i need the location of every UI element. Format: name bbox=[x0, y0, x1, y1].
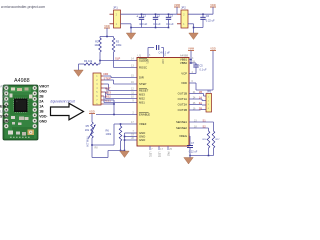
svg-text:STEP: STEP bbox=[0, 114, 9, 118]
svg-text:R2: R2 bbox=[95, 40, 99, 44]
svg-text:1B: 1B bbox=[39, 109, 44, 113]
svg-text:CP1: CP1 bbox=[146, 59, 148, 64]
svg-text:DIR: DIR bbox=[139, 76, 144, 80]
svg-text:SENSE1: SENSE1 bbox=[176, 120, 187, 124]
svg-text:2A: 2A bbox=[39, 99, 44, 103]
svg-text:0.22 uF: 0.22 uF bbox=[189, 150, 198, 153]
svg-text:VMOT: VMOT bbox=[39, 84, 50, 88]
svg-text:1A: 1A bbox=[39, 104, 44, 108]
svg-text:LSS1: LSS1 bbox=[149, 152, 151, 158]
svg-text:A4988: A4988 bbox=[14, 78, 30, 84]
svg-text:U1: U1 bbox=[138, 53, 142, 57]
svg-text:1B: 1B bbox=[199, 90, 202, 94]
svg-text:1A: 1A bbox=[199, 95, 202, 99]
svg-text:VDD: VDD bbox=[210, 47, 216, 51]
svg-text:SENSE2: SENSE2 bbox=[176, 126, 187, 130]
svg-text:VDD: VDD bbox=[104, 24, 110, 28]
svg-text:C4 0.1 uF: C4 0.1 uF bbox=[159, 50, 171, 54]
svg-text:VBB2: VBB2 bbox=[180, 61, 188, 65]
svg-text:0.1 uF: 0.1 uF bbox=[153, 22, 161, 26]
svg-text:OUT1A: OUT1A bbox=[178, 97, 187, 101]
svg-text:20k: 20k bbox=[85, 128, 90, 132]
svg-text:S1: S1 bbox=[203, 118, 207, 122]
svg-text:0.1 uF: 0.1 uF bbox=[166, 22, 174, 26]
svg-text:OUT2A: OUT2A bbox=[178, 103, 187, 107]
svg-text:w.microcontroller-project.com: w.microcontroller-project.com bbox=[1, 5, 45, 9]
svg-text:TRIM_10K: TRIM_10K bbox=[86, 136, 88, 147]
svg-text:2B: 2B bbox=[199, 106, 202, 110]
svg-text:0.1 uF: 0.1 uF bbox=[200, 68, 208, 71]
svg-text:VDD: VDD bbox=[181, 81, 187, 85]
svg-text:VDD: VDD bbox=[210, 3, 216, 7]
svg-text:Equivalent circuit: Equivalent circuit bbox=[51, 99, 75, 103]
svg-text:RESET: RESET bbox=[0, 104, 9, 108]
svg-text:C2: C2 bbox=[157, 14, 161, 18]
svg-text:SLP: SLP bbox=[115, 56, 120, 60]
svg-text:JP5: JP5 bbox=[207, 89, 212, 93]
svg-text:C3: C3 bbox=[170, 14, 174, 18]
svg-text:VDD·: VDD· bbox=[39, 114, 47, 118]
svg-text:R3: R3 bbox=[116, 40, 120, 44]
svg-text:0.22 uF: 0.22 uF bbox=[206, 19, 215, 23]
svg-text:MS1: MS1 bbox=[139, 101, 145, 105]
svg-text:VMM: VMM bbox=[174, 3, 180, 7]
svg-text:100k: 100k bbox=[116, 43, 122, 47]
svg-text:ROSC: ROSC bbox=[139, 66, 147, 70]
svg-text:VMM: VMM bbox=[188, 47, 194, 51]
svg-text:100 uF: 100 uF bbox=[139, 22, 147, 26]
svg-text:R4 10k: R4 10k bbox=[84, 59, 93, 63]
svg-text:+: + bbox=[136, 14, 138, 18]
svg-text:STEP: STEP bbox=[139, 82, 146, 86]
svg-text:GND: GND bbox=[39, 119, 47, 123]
svg-text:PAD: PAD bbox=[167, 152, 170, 157]
svg-text:LSS2: LSS2 bbox=[158, 152, 160, 158]
svg-text:MS2: MS2 bbox=[2, 94, 9, 98]
svg-text:ENABLE: ENABLE bbox=[0, 84, 9, 88]
svg-text:C1: C1 bbox=[143, 14, 147, 18]
svg-text:CP2: CP2 bbox=[161, 59, 163, 64]
svg-text:DIR: DIR bbox=[3, 119, 9, 123]
svg-text:10k: 10k bbox=[94, 43, 99, 47]
svg-text:VCP: VCP bbox=[181, 72, 187, 76]
svg-text:JP1: JP1 bbox=[113, 6, 118, 10]
svg-text:GND: GND bbox=[39, 89, 47, 93]
svg-text:R6: R6 bbox=[106, 128, 110, 132]
svg-text:2B: 2B bbox=[39, 94, 44, 98]
svg-text:ENABLE: ENABLE bbox=[139, 113, 150, 117]
svg-text:VREG: VREG bbox=[179, 134, 187, 138]
svg-text:R5: R5 bbox=[86, 124, 90, 128]
svg-text:S2: S2 bbox=[203, 124, 207, 128]
svg-text:JP2: JP2 bbox=[181, 6, 186, 10]
svg-text:100k: 100k bbox=[106, 132, 112, 136]
svg-text:SLEEP: SLEEP bbox=[0, 109, 9, 113]
svg-text:VDD: VDD bbox=[89, 110, 95, 114]
svg-text:OUT1B: OUT1B bbox=[178, 92, 187, 96]
svg-text:VREF: VREF bbox=[139, 122, 147, 126]
svg-text:MS3: MS3 bbox=[2, 99, 9, 103]
svg-text:2A: 2A bbox=[199, 101, 202, 105]
svg-text:C6: C6 bbox=[206, 14, 210, 18]
svg-text:STEP: STEP bbox=[104, 76, 111, 80]
svg-text:OUT2B: OUT2B bbox=[178, 108, 187, 112]
svg-text:MS1: MS1 bbox=[2, 89, 9, 93]
svg-text:MS1: MS1 bbox=[105, 99, 111, 103]
svg-text:GND: GND bbox=[139, 138, 145, 142]
